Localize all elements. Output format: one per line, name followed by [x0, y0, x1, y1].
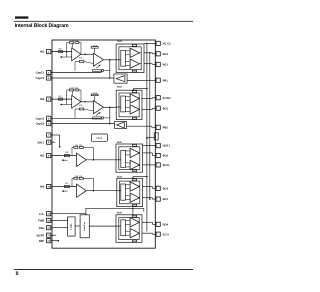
svg-text:BO2: BO2	[163, 155, 169, 158]
svg-text:IN3: IN3	[40, 155, 45, 158]
svg-text:CapC1: CapC1	[36, 72, 45, 75]
svg-text:RDx: RDx	[39, 227, 45, 230]
svg-text:SIN 2: SIN 2	[37, 141, 44, 144]
svg-text:CapC3: CapC3	[36, 117, 45, 120]
svg-text:BO4: BO4	[163, 223, 169, 226]
svg-text:CapC4: CapC4	[36, 123, 45, 126]
svg-text:OU1: OU1	[117, 40, 123, 43]
svg-text:IN2: IN2	[40, 98, 45, 101]
svg-text:8: 8	[16, 271, 19, 277]
svg-text:21k 21k: 21k 21k	[70, 39, 79, 42]
svg-text:BC1: BC1	[163, 64, 169, 67]
svg-text:FWB: FWB	[38, 220, 44, 223]
svg-text:BO3: BO3	[163, 187, 169, 190]
svg-text:BC2L: BC2L	[163, 164, 170, 167]
svg-text:BU3: BU3	[117, 176, 122, 179]
svg-text:PB5: PB5	[163, 126, 169, 129]
svg-text:CapC2: CapC2	[36, 77, 45, 80]
svg-text:Stand by: Stand by	[83, 221, 86, 231]
svg-text:PB1: PB1	[163, 79, 169, 82]
svg-text:IN4: IN4	[40, 186, 45, 189]
svg-text:IN1: IN1	[40, 51, 45, 54]
svg-text:B C4: B C4	[163, 233, 170, 236]
svg-text:B CE2: B CE2	[163, 97, 171, 100]
svg-text:BU4: BU4	[117, 212, 122, 215]
svg-text:MUTE: MUTE	[37, 234, 45, 237]
svg-text:BU1: BU1	[117, 85, 122, 88]
svg-text:MUX: MUX	[97, 137, 103, 140]
svg-text:HCE 1: HCE 1	[163, 145, 171, 148]
svg-text:BO1: BO1	[163, 53, 169, 56]
svg-text:20k 20k: 20k 20k	[75, 144, 84, 147]
svg-text:74A: 74A	[154, 135, 157, 139]
svg-text:REF: REF	[39, 240, 45, 243]
svg-text:BC5: BC5	[163, 107, 169, 110]
svg-text:Internal Block Diagram: Internal Block Diagram	[15, 23, 69, 29]
svg-text:20k 20k: 20k 20k	[75, 175, 84, 178]
svg-text:BC3: BC3	[163, 198, 169, 201]
svg-text:21k 21k: 21k 21k	[70, 87, 79, 90]
svg-text:BU2: BU2	[117, 141, 122, 144]
svg-text:21kB: 21kB	[92, 45, 98, 48]
svg-text:21kB: 21kB	[92, 92, 98, 95]
svg-text:C.S.: C.S.	[39, 213, 44, 216]
svg-text:Logic: Logic	[69, 223, 72, 230]
svg-text:NC C2: NC C2	[163, 43, 172, 46]
